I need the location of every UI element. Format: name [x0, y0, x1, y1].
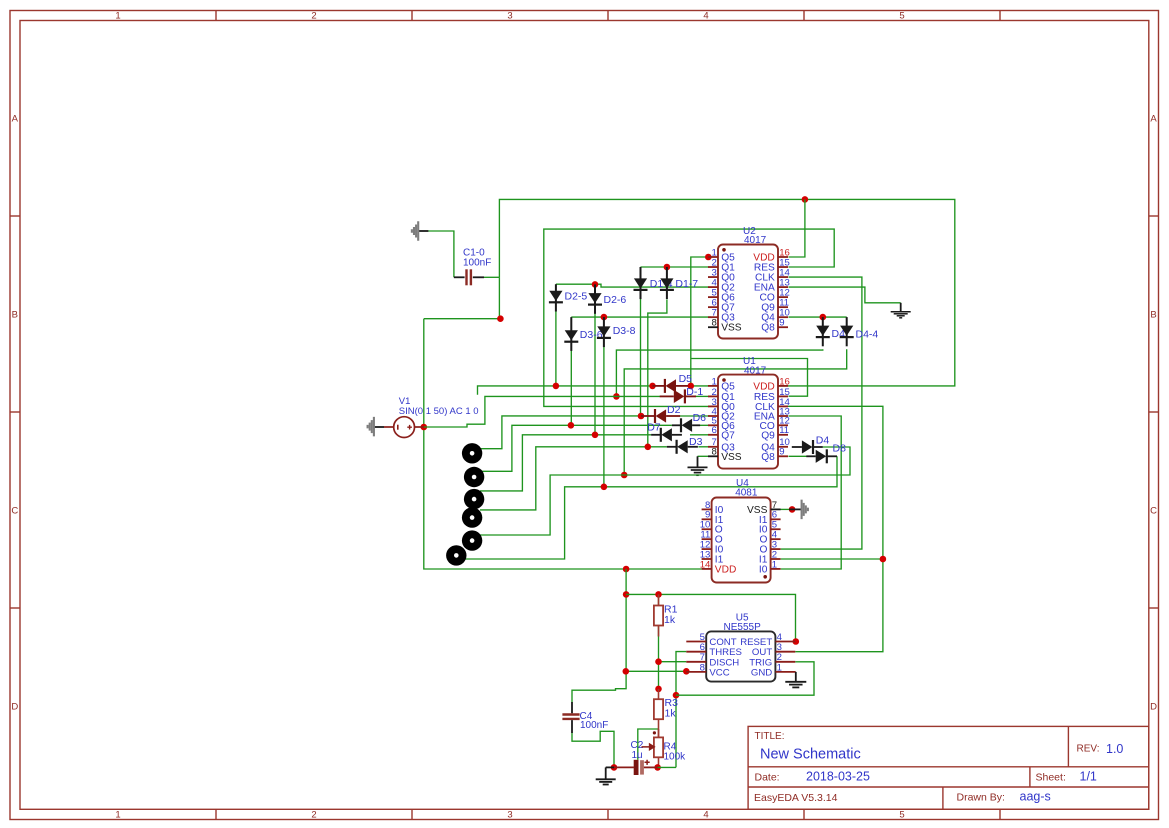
wire DISCH row — [659, 661, 687, 663]
U4 left pins — [702, 508, 712, 510]
junction D2-6 top — [592, 281, 599, 288]
wire U1 ENA to U4 pin1 — [781, 416, 842, 569]
wire C1 to rail — [484, 276, 499, 278]
LED LED1 — [462, 443, 482, 463]
ground at U1 VSS — [688, 466, 708, 468]
svg-text:1/1: 1/1 — [1080, 769, 1097, 783]
junction U5 VCC pin — [683, 668, 690, 675]
junction top rail — [802, 196, 809, 203]
svg-text:REV:: REV: — [1077, 744, 1100, 755]
wire V+ horizontal to C1 riser — [424, 318, 501, 320]
wire R1 leads — [658, 594, 660, 605]
IC U5 body — [706, 631, 775, 681]
wire D4 output loop — [480, 447, 850, 535]
wire D7 right to pin6 — [690, 434, 709, 436]
svg-text:New Schematic: New Schematic — [760, 747, 861, 763]
junction bottom ground node — [611, 764, 618, 771]
svg-text:1k: 1k — [664, 614, 676, 626]
IC U2 body — [718, 245, 778, 339]
svg-text:14: 14 — [700, 559, 711, 570]
svg-text:4017: 4017 — [744, 235, 767, 246]
ground gray at V1 — [374, 426, 384, 428]
svg-text:VCC: VCC — [709, 667, 729, 678]
svg-text:D: D — [1150, 701, 1157, 712]
svg-text:8: 8 — [711, 318, 716, 329]
svg-text:5: 5 — [899, 810, 904, 821]
wire D3 right to pin7 — [698, 446, 708, 448]
svg-text:D-1: D-1 — [686, 386, 703, 398]
junction V1 plus — [421, 424, 428, 431]
junction R4 bottom — [654, 764, 661, 771]
junction THRES TRIG node — [673, 692, 680, 699]
svg-text:B: B — [1150, 309, 1156, 320]
potentiometer R4 — [658, 729, 660, 737]
junction D1-7 row7 — [645, 444, 652, 451]
diode D3-6 — [570, 317, 572, 351]
svg-text:5: 5 — [899, 11, 904, 22]
U2 right pins — [778, 256, 788, 258]
svg-text:D5: D5 — [679, 373, 693, 385]
junction D5 right Q5 vertical — [688, 383, 695, 390]
junction VDD branch U4 — [623, 566, 630, 573]
diode D5 — [653, 385, 665, 387]
wire U2 CLK to U4 pin3 — [781, 277, 862, 549]
resistor R3 — [654, 699, 663, 719]
diode D3 — [667, 446, 677, 448]
svg-text:D2-5: D2-5 — [565, 291, 588, 303]
svg-text:Q7: Q7 — [721, 430, 735, 441]
svg-text:11: 11 — [779, 425, 789, 436]
svg-text:4: 4 — [703, 11, 708, 22]
junction U2 Q4 — [820, 314, 827, 321]
wire V1 to U1 row2 — [424, 396, 661, 427]
diode D4-4 — [846, 317, 848, 346]
U5 right pins — [775, 641, 795, 643]
ground gray right of U4 — [789, 508, 801, 510]
wire D2-6 bottom vertical — [594, 314, 596, 435]
svg-text:Q8: Q8 — [761, 452, 775, 463]
svg-text:D1-7: D1-7 — [675, 278, 698, 290]
svg-text:8: 8 — [700, 662, 705, 673]
junction D5 left — [649, 383, 656, 390]
svg-text:4017: 4017 — [744, 365, 767, 376]
U1 left pins — [708, 385, 718, 387]
wire U2 RES to U1 Q0 — [544, 229, 834, 406]
svg-text:1u: 1u — [632, 750, 643, 761]
wire D-1 right to pin2 — [696, 395, 709, 397]
svg-text:VSS: VSS — [721, 323, 742, 334]
svg-text:1: 1 — [777, 662, 782, 673]
wire U2 Q5 vertical — [691, 257, 709, 386]
wire U4 pin2 row — [781, 558, 883, 560]
svg-text:1: 1 — [772, 559, 777, 570]
wire D2 right to pin4 — [680, 415, 709, 417]
wire U5 OUT to clock riser — [781, 406, 883, 651]
svg-text:C: C — [1150, 505, 1157, 516]
svg-text:B: B — [12, 309, 18, 320]
svg-text:6: 6 — [711, 425, 716, 436]
U5 left pins — [686, 641, 706, 643]
ground at C2 — [606, 766, 614, 768]
wire U2 Q3 row to D3-6 D3-8 — [571, 316, 711, 318]
diode D1-7 — [666, 267, 668, 299]
svg-text:Q5: Q5 — [721, 381, 735, 392]
ground at U5 GND — [794, 671, 797, 673]
wire R1 body link DISCH — [658, 594, 660, 605]
svg-text:9: 9 — [779, 318, 784, 329]
wire U1 row6 from LED3 — [480, 435, 651, 491]
wire D3-6 bottom vertical — [570, 349, 572, 425]
svg-text:Drawn By:: Drawn By: — [957, 792, 1005, 804]
svg-text:Q8: Q8 — [761, 323, 775, 334]
wire U2 Q1 row to D1-4 D1-7 — [641, 266, 709, 268]
junction C1 riser — [497, 315, 504, 322]
wire Q8 jog to D8 — [789, 455, 807, 457]
svg-text:D7: D7 — [647, 422, 661, 434]
diode D7 — [651, 434, 661, 436]
svg-text:100k: 100k — [664, 752, 687, 763]
wire VDD top rail — [499, 199, 954, 386]
svg-text:100nF: 100nF — [463, 257, 491, 268]
svg-text:2: 2 — [311, 810, 316, 821]
svg-text:1k: 1k — [665, 708, 677, 720]
LED LED4 — [462, 507, 482, 527]
wire D6 right to pin5 — [700, 424, 709, 426]
wire THRES riser — [676, 652, 686, 768]
wire D3-8 bottom vertical — [603, 346, 605, 487]
svg-text:VDD: VDD — [753, 381, 775, 392]
capacitor C1-0 — [454, 276, 465, 278]
svg-text:D6: D6 — [693, 412, 707, 424]
wire D5 right to pin1 — [688, 385, 709, 387]
wire R4 bottom lead — [658, 757, 660, 767]
svg-text:9: 9 — [779, 447, 784, 458]
svg-text:EasyEDA V5.3.14: EasyEDA V5.3.14 — [754, 792, 838, 804]
wire D2-5 bottom vertical — [555, 311, 557, 386]
diode D6 — [672, 424, 681, 426]
junction D3-6 row5 — [568, 422, 575, 429]
diode D3-8 — [603, 317, 605, 347]
LED LED3 — [464, 489, 484, 509]
junction D3-8 D8 row — [601, 484, 608, 491]
wire U2 ENA to ground — [789, 287, 901, 303]
svg-text:A: A — [1150, 113, 1157, 124]
ground gray top left — [419, 230, 429, 232]
wire U2 VDD to top rail — [789, 199, 805, 257]
svg-text:3: 3 — [507, 810, 512, 821]
svg-text:NE555P: NE555P — [724, 622, 762, 633]
svg-text:2: 2 — [311, 11, 316, 22]
diode D8 — [806, 455, 815, 457]
wire U1 row5 from LED2 — [480, 425, 672, 471]
wire TRIG loop — [676, 662, 814, 695]
junction D1-7 top — [664, 264, 671, 271]
svg-text:4081: 4081 — [735, 488, 758, 499]
U4 right pins — [771, 508, 781, 510]
wire U1 RES link to Q5 — [691, 359, 808, 397]
capacitor C4 — [571, 702, 573, 713]
wire R1 RESET rail — [626, 594, 795, 641]
wire U1 row4 from LED1 — [480, 416, 641, 449]
svg-text:Sheet:: Sheet: — [1036, 771, 1066, 783]
wire D8 output loop — [464, 456, 837, 559]
wire bottom node C4 staircase — [572, 731, 614, 767]
LED LED5 — [462, 530, 482, 550]
wire D4 return — [616, 349, 822, 396]
diode D2 — [641, 415, 655, 417]
svg-text:1: 1 — [711, 376, 716, 387]
junction D2-5 row1 — [553, 383, 560, 390]
svg-text:GND: GND — [751, 667, 772, 678]
junction D4-4 return row — [621, 472, 628, 479]
wire bottom node right — [658, 766, 676, 768]
junction R3 top — [655, 686, 662, 693]
svg-text:D3-6: D3-6 — [580, 329, 603, 341]
wire U2 Q2 row to D2-5 D2-6 — [556, 284, 709, 287]
wire U1 row7 from LED4 — [480, 447, 667, 510]
svg-text:D4-4: D4-4 — [856, 329, 879, 341]
svg-text:D2-6: D2-6 — [604, 294, 627, 306]
junction U2 pin1 — [705, 254, 712, 261]
LED LED2 — [464, 467, 484, 487]
resistor R1 — [654, 606, 663, 626]
voltage source V1 — [394, 417, 415, 438]
junction VCC rail — [623, 668, 630, 675]
wire C1 ground link — [428, 231, 454, 277]
svg-text:D3-8: D3-8 — [613, 325, 636, 337]
wire C1 riser lower — [498, 277, 500, 318]
junction U4 VSS — [789, 506, 796, 513]
LED LED6 — [446, 545, 466, 565]
title block — [748, 726, 1149, 809]
capacitor C2 polarized — [614, 766, 634, 768]
svg-text:Date:: Date: — [755, 771, 780, 783]
junction R1 top — [655, 591, 662, 598]
svg-text:D8: D8 — [833, 443, 847, 455]
svg-text:D2: D2 — [667, 404, 681, 416]
svg-text:C: C — [11, 505, 18, 516]
junction U4 pin2 clock riser — [880, 556, 887, 563]
svg-text:A: A — [12, 113, 19, 124]
svg-text:1: 1 — [115, 11, 120, 22]
diode D4 at U1 Q4 — [792, 446, 802, 448]
svg-text:SIN(0 1 50) AC 1 0: SIN(0 1 50) AC 1 0 — [399, 406, 479, 417]
svg-text:VDD: VDD — [715, 564, 737, 575]
svg-text:VSS: VSS — [721, 452, 742, 463]
svg-text:aag-s: aag-s — [1020, 790, 1051, 804]
svg-text:D3: D3 — [689, 436, 703, 448]
diode D1-4 — [640, 267, 642, 299]
wire U1 row1 Q5 — [478, 386, 653, 395]
wire R3 lead bottom — [658, 719, 660, 737]
diode D4 under U2 — [822, 317, 824, 346]
svg-text:1.0: 1.0 — [1106, 742, 1123, 756]
svg-text:D4: D4 — [816, 435, 830, 447]
ground at U2 ENA — [900, 303, 902, 312]
wire D4-4 return — [624, 349, 847, 475]
junction D4 return U1 Q1 row — [613, 393, 620, 400]
svg-text:8: 8 — [711, 447, 716, 458]
IC U4 body — [712, 498, 771, 583]
svg-text:100nF: 100nF — [580, 720, 608, 731]
svg-text:I0: I0 — [759, 564, 768, 575]
diode D-1 — [660, 395, 674, 397]
wire R1 bottom to DISCH and R3 — [658, 626, 660, 689]
U2 left pins — [708, 256, 718, 258]
junction D1-4 row4 — [638, 413, 645, 420]
svg-text:2018-03-25: 2018-03-25 — [806, 769, 870, 783]
junction D3-8 top — [601, 314, 608, 321]
wire VCC row — [626, 670, 686, 672]
svg-text:4: 4 — [703, 810, 708, 821]
wire V+ left rail — [424, 319, 702, 569]
svg-text:D: D — [11, 701, 18, 712]
diode D2-6 — [594, 284, 596, 313]
svg-text:3: 3 — [507, 11, 512, 22]
wire VDD down branch — [572, 569, 626, 703]
svg-text:TITLE:: TITLE: — [755, 731, 785, 742]
junction U5 RESET — [793, 638, 800, 645]
U1 right pins — [778, 385, 788, 387]
junction R1 top rail — [623, 591, 630, 598]
junction DISCH — [655, 658, 662, 665]
wire U4 pin7 VSS to ground — [780, 508, 789, 510]
wire R3 bottom to C2 left plate — [638, 729, 659, 760]
svg-text:16: 16 — [779, 376, 790, 387]
IC U1 body — [718, 375, 778, 469]
wire D1-4 bottom vertical — [640, 299, 642, 417]
junction D2-6 row6 — [592, 432, 599, 439]
diode D2-5 — [555, 284, 557, 311]
svg-text:Q9: Q9 — [761, 430, 775, 441]
wire U2 Q4 to diodes D4 D4-4 — [789, 316, 847, 318]
svg-text:1: 1 — [115, 810, 120, 821]
wire D1-7 bottom jog — [648, 300, 667, 447]
wire R3 lead top — [658, 689, 660, 699]
wire U1 VSS to ground — [698, 455, 709, 457]
